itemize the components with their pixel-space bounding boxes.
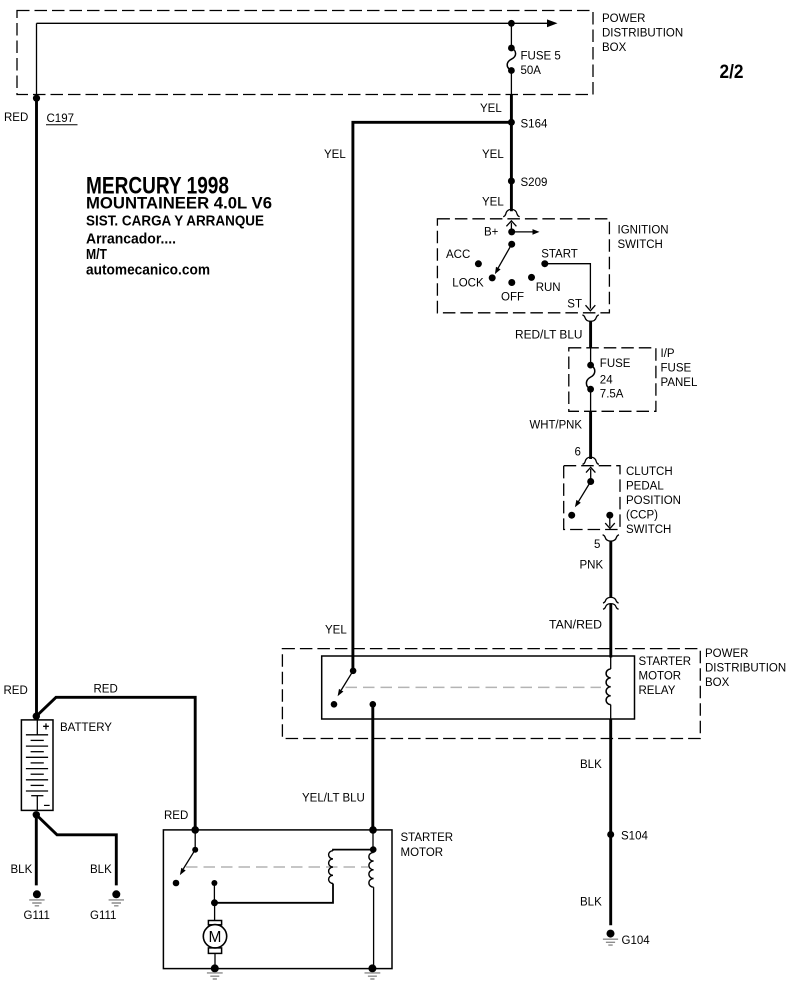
contact CCP output bbox=[606, 512, 613, 519]
svg-text:S209: S209 bbox=[521, 177, 548, 189]
svg-text:–: – bbox=[44, 800, 51, 812]
svg-text:BLK: BLK bbox=[11, 864, 33, 876]
wire motor to case ground bbox=[214, 953, 216, 968]
label FUSE 5 50A bbox=[521, 51, 561, 78]
relay actuation dashed link (gray) bbox=[346, 686, 602, 688]
connector half (female) below ignition switch bbox=[582, 315, 598, 321]
relay contact (NO) bbox=[331, 701, 338, 708]
node CCP input bbox=[587, 478, 594, 485]
starter motor box (solid) bbox=[163, 830, 392, 969]
battery BAT box bbox=[21, 720, 53, 811]
wire BLK below relay bbox=[609, 719, 612, 925]
label I/P FUSE PANEL bbox=[661, 348, 698, 389]
power distribution box (top, dashed) bbox=[17, 11, 593, 95]
svg-text:24: 24 bbox=[600, 375, 613, 387]
label CLUTCH PEDAL POSITION (CCP) SWITCH bbox=[626, 466, 681, 536]
svg-text:BOX: BOX bbox=[705, 677, 730, 689]
svg-text:(CCP): (CCP) bbox=[626, 509, 658, 521]
connector arrow (male) out of ignition switch bbox=[586, 305, 596, 311]
contact ACC bbox=[475, 260, 482, 267]
relay switch arm bbox=[338, 671, 354, 697]
connector arrow (male) out of CCP switch bbox=[605, 515, 615, 528]
ground G111 (right) bbox=[90, 890, 124, 922]
fuse F24 element bbox=[586, 362, 594, 393]
wire RED battery feed (left vertical) bbox=[35, 98, 38, 716]
svg-text:G111: G111 bbox=[24, 910, 50, 922]
svg-text:START: START bbox=[541, 249, 578, 261]
wire BLK second ground branch bbox=[36, 815, 116, 886]
label IGNITION SWITCH bbox=[618, 225, 669, 252]
svg-text:POWER: POWER bbox=[602, 13, 645, 25]
node battery negative bbox=[33, 811, 40, 818]
splice S104 bbox=[607, 831, 614, 838]
svg-text:PNK: PNK bbox=[580, 560, 604, 572]
svg-text:C197: C197 bbox=[47, 113, 75, 125]
case ground node (motor) bbox=[207, 964, 223, 979]
svg-text:RUN: RUN bbox=[536, 282, 561, 294]
starter motor relay box (solid) bbox=[322, 656, 635, 719]
wire RED/LT BLU bbox=[589, 321, 592, 347]
svg-text:RED: RED bbox=[4, 685, 28, 697]
node motor branch top bbox=[211, 880, 217, 886]
svg-text:Arrancador....: Arrancador.... bbox=[86, 232, 176, 248]
connector half (female) above CCP switch bbox=[583, 457, 599, 464]
wire bus bar inside box with arrow bbox=[37, 19, 558, 27]
wire START to ST exit bbox=[545, 264, 591, 309]
contact RUN bbox=[528, 274, 535, 281]
svg-text:STARTER: STARTER bbox=[639, 656, 692, 668]
contact OFF bbox=[508, 279, 515, 286]
node B+ bbox=[508, 228, 515, 235]
svg-text:DISTRIBUTION: DISTRIBUTION bbox=[705, 662, 786, 674]
motor M1 brush (bottom) bbox=[208, 948, 221, 954]
svg-text:YEL/LT BLU: YEL/LT BLU bbox=[302, 792, 365, 804]
starter solenoid switch stem bbox=[194, 830, 196, 850]
battery plates bbox=[26, 720, 48, 811]
svg-text:MOTOR: MOTOR bbox=[401, 847, 444, 859]
contact LOCK bbox=[489, 274, 496, 281]
connector half (female) below CCP switch bbox=[603, 535, 619, 541]
wire hold-in coil to case ground bbox=[373, 887, 375, 968]
svg-text:IGNITION: IGNITION bbox=[618, 225, 669, 237]
svg-text:SIST. CARGA Y ARRANQUE: SIST. CARGA Y ARRANQUE bbox=[86, 213, 264, 229]
starter switch arm bbox=[180, 850, 195, 875]
wire relay output YEL/LT BLU bbox=[371, 704, 374, 830]
label FUSE 24 7.5A bbox=[600, 358, 631, 400]
label POWER DISTRIBUTION BOX (lower) bbox=[705, 648, 786, 689]
wire BLK battery to ground bbox=[35, 815, 38, 886]
contact CCP lower bbox=[568, 512, 575, 519]
svg-text:POSITION: POSITION bbox=[626, 495, 681, 507]
svg-text:LOCK: LOCK bbox=[452, 278, 484, 290]
svg-text:G104: G104 bbox=[622, 935, 651, 947]
svg-text:I/P: I/P bbox=[661, 348, 675, 360]
svg-text:S164: S164 bbox=[521, 118, 548, 130]
relay contact output bbox=[370, 701, 377, 708]
wire WHT/PNK bbox=[589, 411, 592, 459]
svg-text:OFF: OFF bbox=[501, 292, 524, 304]
svg-text:SWITCH: SWITCH bbox=[626, 524, 671, 536]
svg-text:BOX: BOX bbox=[602, 42, 627, 54]
motor M1 body bbox=[203, 925, 226, 948]
contact START bbox=[541, 260, 548, 267]
svg-text:YEL: YEL bbox=[482, 197, 504, 209]
svg-text:YEL: YEL bbox=[324, 149, 346, 161]
svg-text:TAN/RED: TAN/RED bbox=[549, 619, 602, 631]
solenoid feed stem bbox=[372, 830, 374, 850]
svg-text:CLUTCH: CLUTCH bbox=[626, 466, 673, 478]
ground G111 (left) bbox=[24, 890, 50, 922]
node motor junction bbox=[211, 899, 218, 906]
svg-text:DISTRIBUTION: DISTRIBUTION bbox=[602, 27, 683, 39]
starter switch pivot bbox=[192, 847, 198, 853]
wire RED to starter motor bbox=[36, 697, 195, 830]
fuse F24 leads bbox=[590, 348, 592, 412]
wire pull-in coil to motor node bbox=[215, 884, 334, 903]
connector arrow (male) into ignition switch bbox=[506, 221, 516, 232]
connector half (female) above ignition switch bbox=[503, 209, 519, 216]
svg-text:automecanico.com: automecanico.com bbox=[86, 262, 210, 278]
svg-text:7.5A: 7.5A bbox=[600, 389, 624, 401]
wire left drop inside box bbox=[36, 23, 38, 96]
wire motor branch bbox=[213, 883, 215, 903]
I/P fuse panel box (dashed) bbox=[569, 348, 656, 412]
svg-text:RED: RED bbox=[94, 683, 118, 695]
title block bbox=[86, 173, 272, 279]
node C197 bbox=[33, 95, 40, 102]
svg-text:BATTERY: BATTERY bbox=[60, 722, 112, 734]
svg-text:+: + bbox=[43, 722, 50, 734]
svg-text:5: 5 bbox=[594, 539, 600, 551]
svg-text:M/T: M/T bbox=[86, 247, 107, 263]
node battery positive bbox=[33, 713, 40, 720]
node solenoid coils junction bbox=[370, 846, 377, 853]
svg-text:B+: B+ bbox=[484, 226, 499, 238]
svg-text:G111: G111 bbox=[90, 910, 116, 922]
svg-text:WHT/PNK: WHT/PNK bbox=[530, 419, 583, 431]
relay switch common node bbox=[350, 668, 357, 675]
fuse F5 leads bbox=[510, 23, 512, 94]
wire TAN/RED bbox=[609, 604, 612, 658]
starter switch contact bbox=[173, 880, 180, 887]
relay coil L bbox=[606, 669, 611, 705]
ground G104 bbox=[603, 930, 650, 948]
wire to motor bbox=[214, 903, 216, 921]
switch arm toward LOCK bbox=[495, 244, 512, 274]
wire PNK bbox=[609, 541, 612, 597]
label POWER DISTRIBUTION BOX (top) bbox=[602, 13, 683, 54]
svg-text:6: 6 bbox=[575, 446, 581, 458]
svg-text:FUSE 5: FUSE 5 bbox=[521, 51, 561, 63]
svg-text:YEL: YEL bbox=[482, 149, 504, 161]
splice S209 bbox=[508, 178, 515, 185]
svg-text:2/2: 2/2 bbox=[720, 61, 744, 83]
svg-text:M: M bbox=[209, 929, 222, 946]
svg-text:RED: RED bbox=[164, 810, 188, 822]
svg-text:MOUNTAINEER 4.0L V6: MOUNTAINEER 4.0L V6 bbox=[86, 195, 272, 213]
svg-text:MOTOR: MOTOR bbox=[639, 670, 682, 682]
svg-text:YEL: YEL bbox=[325, 625, 347, 637]
relay coil leads bbox=[610, 657, 612, 720]
splice S164 bbox=[508, 119, 515, 126]
svg-text:RED/LT BLU: RED/LT BLU bbox=[515, 330, 583, 342]
svg-text:STARTER: STARTER bbox=[401, 832, 454, 844]
power distribution box (lower, dashed) bbox=[282, 649, 700, 739]
svg-text:50A: 50A bbox=[521, 65, 542, 77]
svg-text:PANEL: PANEL bbox=[661, 377, 698, 389]
node rotor pivot bbox=[508, 241, 515, 248]
CCP switch arm bbox=[575, 482, 591, 508]
ignition switch box (dashed) bbox=[437, 219, 609, 313]
case ground node (coil) bbox=[365, 964, 381, 979]
node junction at fuse tap bbox=[508, 20, 515, 27]
fuse F5 element bbox=[507, 45, 515, 74]
svg-text:RED: RED bbox=[4, 112, 28, 124]
motor M1 brush (top) bbox=[208, 921, 221, 925]
svg-text:YEL: YEL bbox=[480, 103, 502, 115]
svg-text:S104: S104 bbox=[621, 831, 648, 843]
svg-text:FUSE: FUSE bbox=[600, 358, 631, 370]
svg-text:BLK: BLK bbox=[580, 759, 602, 771]
node starter RED input bbox=[191, 826, 199, 834]
svg-text:SWITCH: SWITCH bbox=[618, 239, 663, 251]
label STARTER MOTOR RELAY bbox=[639, 656, 692, 697]
svg-text:RELAY: RELAY bbox=[639, 685, 676, 697]
svg-text:PEDAL: PEDAL bbox=[626, 480, 664, 492]
pull-in coil (left) bbox=[329, 851, 333, 884]
svg-text:ACC: ACC bbox=[446, 249, 470, 261]
clutch pedal position switch box (dashed) bbox=[564, 466, 620, 530]
hold-in coil (right) bbox=[369, 852, 374, 887]
svg-text:POWER: POWER bbox=[705, 648, 748, 660]
label C197 underlined bbox=[46, 113, 78, 125]
connector arrow (male) into CCP switch bbox=[586, 467, 595, 481]
svg-text:ST: ST bbox=[567, 298, 582, 310]
wire to pull-in coil bbox=[333, 850, 373, 851]
svg-text:BLK: BLK bbox=[580, 897, 602, 909]
node starter YEL/LT BLU input bbox=[369, 826, 377, 834]
inline connector (two halves) on TAN/RED bbox=[603, 597, 619, 609]
starter actuation dashed link (gray) bbox=[186, 866, 368, 868]
wire branch to long YEL run bbox=[353, 122, 512, 671]
arrow right from B+ bbox=[512, 229, 540, 235]
wire YEL main vertical to ignition bbox=[510, 95, 513, 212]
svg-text:FUSE: FUSE bbox=[661, 363, 692, 375]
svg-text:BLK: BLK bbox=[90, 864, 112, 876]
label STARTER MOTOR bbox=[401, 832, 454, 859]
